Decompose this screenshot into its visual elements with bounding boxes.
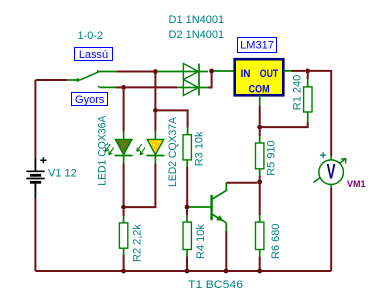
voltmeter plus bbox=[320, 152, 326, 158]
battery V1 bbox=[26, 157, 46, 198]
diode D2 bbox=[183, 80, 208, 96]
svg-text:R3 10k: R3 10k bbox=[194, 131, 206, 166]
node base / R3 / R4 bbox=[185, 205, 190, 210]
wire collector to R5/R6 node bbox=[226, 182, 257, 184]
node emitter bottom bbox=[224, 269, 229, 274]
wire Gyors line to D2 bbox=[124, 86, 177, 88]
resistor R6 bbox=[256, 222, 264, 249]
LED D4 LED2 bbox=[146, 139, 164, 155]
svg-text:R1 240: R1 240 bbox=[292, 75, 304, 110]
wire LED2 cathode to R2 node bbox=[154, 156, 156, 164]
LM317 body U1 bbox=[235, 59, 284, 95]
node R4 bottom bbox=[185, 269, 190, 274]
wire node to R3 top bbox=[155, 110, 187, 128]
LED1 arrows bbox=[105, 144, 113, 155]
wire R5 top lead bbox=[259, 129, 261, 136]
transistor T1 bbox=[212, 183, 227, 231]
svg-text:VM1: VM1 bbox=[347, 179, 366, 189]
resistor R4 bbox=[183, 222, 191, 249]
resistor R2 bbox=[119, 223, 127, 248]
node on top line above LED2 bbox=[153, 69, 158, 74]
svg-text:V1 12: V1 12 bbox=[48, 168, 77, 180]
diode D1 bbox=[183, 64, 208, 80]
svg-text:1-0-2: 1-0-2 bbox=[78, 30, 104, 42]
wire base bbox=[189, 206, 211, 208]
wire node to R6 top bbox=[259, 182, 261, 215]
label box LM317 bbox=[238, 38, 277, 53]
resistor R1 bbox=[304, 87, 312, 112]
LED D3 LED1 bbox=[115, 139, 133, 155]
voltmeter arrow tail bbox=[314, 159, 347, 183]
resistor R5 bbox=[256, 143, 264, 169]
wire OUT node to voltmeter bbox=[308, 71, 332, 156]
switch blade bbox=[80, 71, 99, 80]
wire R1 top lead bbox=[307, 72, 309, 87]
node R6 bottom bbox=[257, 269, 262, 274]
node R2 bottom bbox=[121, 269, 126, 274]
svg-text:COM: COM bbox=[249, 84, 270, 96]
wire R3 bottom lead bbox=[186, 160, 188, 205]
wire LED2 anode bbox=[154, 113, 156, 140]
wire bottom rail bbox=[35, 270, 331, 272]
wire node to R4 top bbox=[186, 209, 188, 215]
svg-text:LED1 CQX36A: LED1 CQX36A bbox=[96, 115, 108, 186]
wire R4 bottom lead bbox=[186, 250, 188, 272]
wire D2 cathode up to D1 line bbox=[208, 71, 212, 88]
node on Gyors line above LED1 bbox=[121, 85, 126, 90]
wire voltmeter bottom bbox=[330, 184, 332, 189]
svg-text:LM317: LM317 bbox=[240, 40, 274, 52]
node LED join / R2 top bbox=[121, 205, 126, 210]
wire R2 top lead bbox=[123, 210, 125, 217]
svg-text:LED2 CQX37A: LED2 CQX37A bbox=[167, 116, 179, 187]
node R5 / R6 / collector bbox=[257, 180, 262, 185]
svg-text:Gyors: Gyors bbox=[75, 94, 105, 106]
svg-text:R4 10k: R4 10k bbox=[195, 224, 207, 259]
node D1/D2 cathode join bbox=[209, 69, 214, 74]
svg-text:D1 1N4001: D1 1N4001 bbox=[169, 14, 225, 26]
svg-text:D2 1N4001: D2 1N4001 bbox=[169, 29, 225, 41]
svg-text:T1 BC546: T1 BC546 bbox=[188, 279, 243, 291]
svg-text:IN: IN bbox=[241, 68, 251, 80]
wire COM node to R1 bottom bbox=[260, 122, 308, 127]
wire emitter down bbox=[225, 231, 227, 271]
label box Lassu bbox=[75, 48, 113, 62]
switch SW common bbox=[35, 78, 79, 81]
svg-text:R2 2,2k: R2 2,2k bbox=[132, 224, 144, 262]
node COM / R1 bottom / R5 bbox=[257, 125, 262, 130]
svg-text:OUT: OUT bbox=[260, 68, 279, 80]
LED2 arrows bbox=[137, 144, 145, 155]
wire LM317 COM pin bbox=[259, 95, 261, 125]
wire LED1 anode bbox=[123, 90, 125, 140]
node OUT / R1 bbox=[305, 69, 310, 74]
svg-text:Lassú: Lassú bbox=[79, 49, 108, 61]
svg-text:V: V bbox=[327, 159, 336, 183]
wire R2 bottom lead bbox=[123, 248, 125, 271]
voltmeter arrow head bbox=[341, 159, 346, 164]
wire battery bottom to bottom rail bbox=[34, 198, 36, 271]
node above LED2 / R3 branch bbox=[153, 108, 158, 113]
wire LM317 OUT pin bbox=[283, 70, 305, 72]
wire R5 bottom lead bbox=[259, 169, 261, 180]
wire top line dot to D1 (green pin) bbox=[158, 71, 184, 73]
switch bottom throw (Gyors) bbox=[98, 86, 121, 87]
wire node to LM317 IN bbox=[214, 70, 235, 72]
wire R6 bottom lead bbox=[259, 250, 261, 272]
resistor R3 bbox=[183, 135, 191, 160]
svg-text:R6 680: R6 680 bbox=[270, 224, 282, 259]
label box Gyors bbox=[72, 93, 108, 107]
wire vertical x=155 from top line to node bbox=[154, 72, 156, 109]
wire LED1 cathode bbox=[123, 156, 125, 206]
voltmeter VM1 bbox=[319, 159, 344, 184]
switch top throw (Lassu) bbox=[99, 71, 153, 73]
svg-text:R5 910: R5 910 bbox=[266, 140, 278, 175]
wire left vertical from switch common to battery bbox=[34, 80, 36, 158]
